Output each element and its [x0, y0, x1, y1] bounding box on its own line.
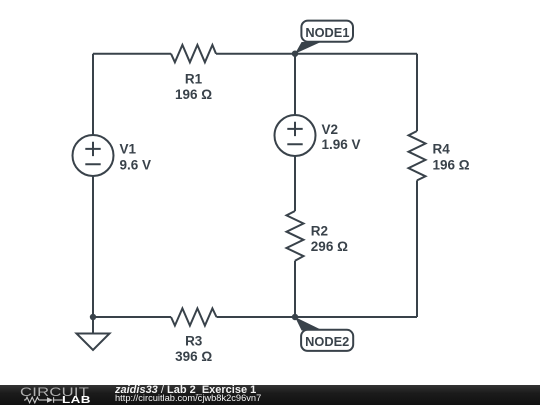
- svg-text:196 Ω: 196 Ω: [175, 87, 212, 102]
- svg-text:R2: R2: [311, 224, 328, 239]
- svg-text:1.96 V: 1.96 V: [322, 137, 361, 152]
- svg-text:V2: V2: [322, 122, 339, 137]
- svg-text:V1: V1: [120, 142, 137, 157]
- svg-text:296 Ω: 296 Ω: [311, 239, 348, 254]
- svg-text:NODE1: NODE1: [305, 25, 349, 40]
- svg-text:NODE2: NODE2: [305, 334, 349, 349]
- svg-text:R3: R3: [185, 334, 203, 349]
- svg-text:396 Ω: 396 Ω: [175, 349, 212, 364]
- svg-text:196 Ω: 196 Ω: [433, 158, 470, 173]
- svg-text:R4: R4: [433, 142, 451, 157]
- svg-text:9.6 V: 9.6 V: [120, 158, 152, 173]
- svg-text:R1: R1: [185, 72, 203, 87]
